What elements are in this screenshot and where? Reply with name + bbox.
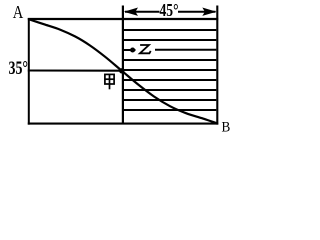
svg-text:A: A <box>13 2 24 22</box>
point dot at 乙 <box>130 47 135 52</box>
box bottom edge <box>28 123 218 125</box>
point dot at 甲 (curve / 35° line / divider junction) <box>119 68 124 73</box>
box top edge <box>28 18 218 20</box>
hatch line 7 <box>124 89 217 91</box>
hatch line 2 <box>124 39 217 41</box>
vertical divider line (left edge of hatched band) <box>122 6 124 124</box>
left arrowhead <box>124 8 138 16</box>
hatch line 8 <box>124 99 217 101</box>
box right edge <box>216 6 218 125</box>
hatch line 3 (row of point 乙), left segment through dot <box>124 49 136 51</box>
box left edge <box>28 18 30 125</box>
right arrowhead <box>202 8 216 16</box>
double-headed arrow shaft, right part <box>178 11 216 13</box>
svg-text:45°: 45° <box>160 0 179 20</box>
hatch line 5 <box>124 69 217 71</box>
hatch line 1 <box>124 29 217 31</box>
hatch line 6 <box>124 79 217 81</box>
hatch line 3, right segment after 乙 label <box>155 49 216 51</box>
hatch line 9 <box>124 109 217 111</box>
label 甲 (drawn strokes) <box>105 74 114 89</box>
label 乙 (drawn strokes) <box>140 45 151 53</box>
hatch line 4 <box>124 59 217 61</box>
svg-text:35°: 35° <box>9 59 29 79</box>
35-degree latitude line <box>28 69 122 71</box>
double-headed arrow shaft, left part <box>125 11 160 13</box>
curve from A to B <box>30 20 218 124</box>
svg-text:B: B <box>222 120 231 135</box>
